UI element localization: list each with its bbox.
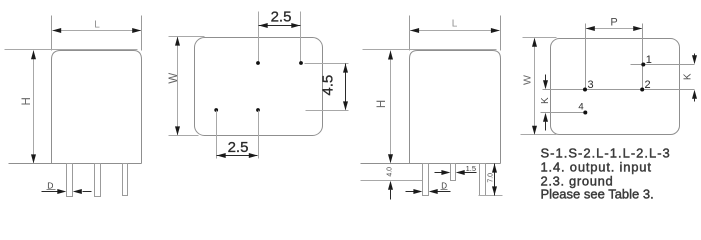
dimension W arrowhead top: [175, 37, 180, 46]
dimension H top extension line (fig3): [363, 49, 497, 51]
dimension D right arrowhead and shaft (fig3): [429, 189, 438, 194]
pad dot bottom-left: [214, 108, 218, 112]
pin4 row line: [541, 112, 586, 114]
svg-text:7.0: 7.0: [488, 173, 495, 183]
lead 1 (side view 1): [67, 164, 73, 197]
label D underline (fig3): [441, 189, 448, 191]
dimension H arrowhead bottom: [31, 154, 36, 163]
pin2 pin3 row line: [543, 89, 695, 91]
pin 2 dot: [640, 88, 644, 92]
lead A (fig3, long): [423, 164, 429, 196]
dimension 2.5 bottom arrowhead right: [249, 153, 258, 158]
left K arrow up: [543, 113, 548, 122]
dimension P extension line right: [642, 24, 644, 90]
short lead bottom extension line: [361, 180, 423, 182]
dimension 1.5 left shaft and arrowhead: [435, 172, 443, 174]
pin1 row line: [631, 64, 695, 66]
label D underline: [47, 189, 56, 191]
svg-text:2.5: 2.5: [228, 139, 249, 156]
svg-text:K: K: [682, 73, 693, 80]
svg-text:L: L: [94, 19, 100, 30]
dimension W bottom extension line (fig4): [521, 134, 557, 136]
bottom 2.5 extension line right: [258, 111, 260, 159]
svg-text:4.5: 4.5: [320, 75, 337, 96]
dimension P extension line left: [585, 24, 587, 90]
dimension 2.5 bottom line: [217, 155, 258, 157]
package body (side view 2): [410, 51, 501, 164]
dimension 2.5 bottom arrowhead left: [217, 153, 226, 158]
svg-text:2: 2: [645, 79, 651, 91]
dimension 4.5 arrowhead top: [343, 64, 348, 73]
top 2.5 extension line left: [258, 12, 260, 62]
svg-text:2.5: 2.5: [271, 9, 292, 26]
dimension L extension line left: [51, 16, 53, 51]
svg-text:S-1.S-2.L-1.L-2.L-3: S-1.S-2.L-1.L-2.L-3: [541, 146, 671, 161]
long lead bottom extension line (fig3): [479, 195, 503, 197]
lead B (fig3, short): [451, 164, 456, 181]
dimension 2.5 top arrowhead right: [291, 23, 300, 28]
dimension W line (fig4): [534, 39, 536, 135]
pin 4 dot: [583, 111, 587, 115]
4.5 extension line top: [305, 63, 349, 65]
dimension P arrowhead right: [633, 26, 642, 31]
svg-text:1.4. output. input: 1.4. output. input: [541, 160, 652, 175]
dimension W arrowhead bottom: [175, 126, 180, 135]
dimension P line: [586, 28, 643, 30]
dimension L line (fig3): [410, 30, 500, 32]
package body (side view 1): [52, 51, 142, 164]
dimension L arrowhead left (fig3): [410, 28, 419, 33]
pad dot top-right: [299, 61, 303, 65]
dimension 4.5 arrowhead bottom: [343, 101, 348, 110]
dimension W bottom extension line: [169, 135, 199, 137]
dimension L line: [53, 30, 142, 32]
dimension D left shaft and arrowhead (fig3): [406, 191, 415, 193]
right K arrow up: [692, 90, 697, 99]
seating plane line (fig3): [361, 163, 501, 165]
dimension 2.5 top line: [259, 25, 301, 27]
dimension W top extension line (fig4): [523, 37, 557, 39]
left K arrow down: [545, 75, 547, 81]
dimension H line (fig3): [390, 51, 392, 163]
pin 3 dot: [583, 88, 587, 92]
dimension L arrowhead right (fig3): [491, 28, 500, 33]
svg-text:D: D: [47, 181, 53, 191]
dimension H arrowhead top: [31, 50, 36, 59]
seating plane line: [9, 163, 142, 165]
dimension H arrowhead top (fig3): [388, 51, 393, 60]
svg-text:4: 4: [578, 101, 583, 112]
svg-text:H: H: [21, 97, 33, 105]
dimension H top extension line: [5, 49, 138, 51]
svg-text:W: W: [168, 73, 180, 84]
dimension D left shaft and arrowhead: [42, 191, 59, 193]
dimension H arrowhead bottom (fig3): [388, 154, 393, 163]
dimension L arrowhead left: [52, 28, 61, 33]
svg-text:K: K: [540, 97, 551, 104]
package outline (top view 1): [195, 38, 323, 136]
dimension W arrowhead bottom (fig4): [532, 126, 537, 135]
dimension 7.0 line: [494, 164, 496, 196]
4.5 extension line bottom: [306, 110, 349, 112]
dimension 4.5 line: [345, 64, 347, 110]
svg-text:3: 3: [588, 79, 594, 91]
bottom 2.5 extension line left: [216, 111, 218, 159]
svg-text:H: H: [376, 100, 388, 108]
svg-text:1: 1: [646, 54, 652, 66]
dimension P arrowhead left: [586, 26, 595, 31]
dimension L extension line left (fig3): [409, 16, 411, 51]
dimension 7.0 arrowhead bottom: [492, 186, 497, 195]
dimension W line: [177, 37, 179, 136]
dimension 1.5 right arrowhead and shaft: [456, 170, 465, 175]
dimension W top extension line: [169, 36, 205, 38]
svg-text:Please see Table 3.: Please see Table 3.: [541, 186, 654, 201]
pad dot top-left: [256, 61, 260, 65]
svg-text:L: L: [452, 19, 458, 30]
pin 1 dot: [641, 63, 645, 67]
svg-text:4.0: 4.0: [387, 167, 394, 177]
package outline (top view 2): [551, 39, 680, 135]
dimension D right arrowhead and shaft: [73, 189, 82, 194]
dimension L extension line right: [141, 16, 143, 51]
svg-text:P: P: [610, 16, 617, 28]
dimension 2.5 top arrowhead left: [259, 23, 268, 28]
top 2.5 extension line right: [300, 12, 302, 62]
dimension W arrowhead top (fig4): [532, 38, 537, 47]
lead 3 (side view 1): [123, 164, 128, 196]
pad dot bottom-mid: [256, 108, 260, 112]
lead C (fig3, long): [480, 164, 486, 196]
dimension L extension line right (fig3): [500, 16, 502, 51]
svg-text:1.5: 1.5: [466, 164, 476, 173]
right K arrow down: [694, 54, 696, 57]
dimension 7.0 arrowhead top: [492, 164, 497, 173]
dimension H line: [33, 51, 35, 164]
dimension 4.0 bottom arrowhead and shaft: [388, 181, 393, 190]
dimension L arrowhead right: [132, 28, 141, 33]
svg-text:W: W: [521, 75, 533, 85]
lead 2 (side view 1): [95, 164, 101, 197]
